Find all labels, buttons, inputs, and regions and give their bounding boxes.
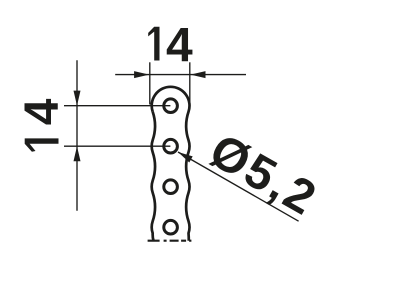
hole 3: [164, 180, 178, 194]
strip outline right and top cap: [152, 87, 190, 241]
hole 2: [164, 139, 178, 153]
top extension line right: [189, 62, 191, 104]
left extension line lower: [64, 145, 170, 147]
digit 1 of left dimension 14 (custom glyph, rotated): [25, 138, 59, 151]
leader line for hole diameter: [178, 152, 299, 221]
arrowhead left-upper (points down): [74, 91, 81, 106]
svg-text:Ø5,2: Ø5,2: [201, 124, 326, 226]
left extension line upper: [64, 105, 170, 107]
arrowhead top-left (points right): [134, 71, 149, 78]
cut line (dash-dot break line): [148, 240, 192, 242]
arrowhead left-lower (points up): [74, 146, 81, 161]
svg-text:4: 4: [166, 19, 193, 72]
arrowhead top-right (points left): [190, 71, 205, 78]
hole 1: [164, 99, 178, 113]
top extension line left: [149, 62, 151, 104]
leader arrowhead (points up-left at hole 2): [178, 152, 193, 163]
hole 4: [164, 220, 178, 234]
top dimension line: [115, 74, 246, 76]
strip outline left: [152, 112, 155, 241]
left dimension line: [76, 60, 78, 210]
digit 1 of top dimension 14 (custom glyph): [148, 27, 159, 61]
svg-text:4: 4: [16, 98, 69, 125]
